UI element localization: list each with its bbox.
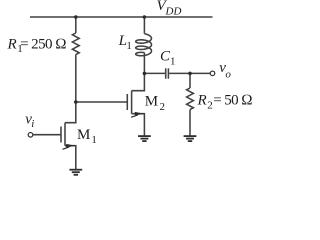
svg-text:M: M (77, 127, 90, 143)
svg-text:M: M (145, 94, 158, 110)
svg-text:R: R (197, 93, 207, 109)
svg-text:1: 1 (91, 134, 97, 146)
svg-text:2: 2 (160, 101, 166, 113)
svg-text:DD: DD (165, 6, 182, 18)
svg-text:1: 1 (170, 55, 176, 67)
svg-text:= 50 Ω: = 50 Ω (213, 93, 253, 109)
svg-text:1: 1 (126, 40, 131, 52)
svg-text:o: o (225, 69, 231, 81)
svg-text:R: R (7, 36, 17, 52)
svg-text:= 250 Ω: = 250 Ω (20, 36, 67, 52)
svg-text:i: i (31, 118, 34, 130)
svg-text:2: 2 (207, 100, 213, 112)
